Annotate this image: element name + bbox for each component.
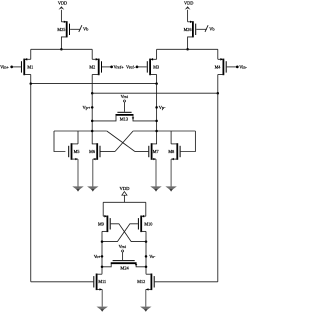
svg-text:M25: M25 xyxy=(57,27,65,32)
wire right feedback vertical xyxy=(217,93,219,282)
svg-text:Vrst: Vrst xyxy=(119,244,127,249)
node Vp- xyxy=(155,106,158,109)
wire VDD2 rail xyxy=(103,201,146,203)
node M2 drain junction xyxy=(91,92,94,95)
wire M3 source down xyxy=(156,75,158,84)
node M10 drain cross junction xyxy=(145,240,148,243)
svg-text:M6: M6 xyxy=(89,149,95,154)
svg-text:M26: M26 xyxy=(184,27,192,32)
svg-text:M13: M13 xyxy=(120,117,129,122)
wire M9 source up xyxy=(102,202,104,216)
transistor M8 xyxy=(176,143,178,160)
node M9 drain cross junction xyxy=(101,240,104,243)
svg-text:M4: M4 xyxy=(215,64,222,69)
wire M2 drain up xyxy=(91,49,93,59)
wire M12 drain up xyxy=(145,273,147,275)
node M13 left xyxy=(91,120,94,123)
wire M7 source down xyxy=(155,159,157,187)
wire M1-M3 drain join xyxy=(31,83,157,85)
wire M2-M4 drain join xyxy=(92,92,218,94)
node latch rail right junction xyxy=(155,130,158,133)
wire rail right pair xyxy=(157,48,218,50)
wire M12 gate xyxy=(155,281,218,283)
node latch rail left junction xyxy=(91,130,94,133)
node Vo- xyxy=(145,255,148,258)
transistor M2 xyxy=(98,59,100,76)
wire M4 source down xyxy=(217,75,219,94)
svg-text:Vin-: Vin- xyxy=(239,64,247,69)
ground M11 xyxy=(97,307,108,311)
transistor M5 xyxy=(71,143,73,160)
svg-text:M9: M9 xyxy=(98,221,104,226)
wire VDD right stem xyxy=(187,10,189,22)
node M25 drain junction xyxy=(60,48,63,51)
wire M6 source down xyxy=(92,159,94,187)
node M4 drain junction xyxy=(217,92,220,95)
svg-text:M8: M8 xyxy=(168,149,174,154)
wire M6 gate cross xyxy=(101,151,116,153)
wire M26 gate to Vb xyxy=(196,28,207,30)
node M24 left xyxy=(101,266,104,269)
port Vref+ xyxy=(102,66,112,68)
wire M10 gate cross xyxy=(102,224,138,242)
wire latch rail right xyxy=(133,130,195,132)
wire M10 source up xyxy=(145,202,147,216)
wire M1 source down xyxy=(30,75,32,84)
wire M9 gate cross xyxy=(111,224,146,242)
ground M5 xyxy=(72,186,83,190)
wire VDD left stem xyxy=(60,10,62,22)
svg-text:Vref+: Vref+ xyxy=(114,64,125,69)
svg-text:Vo+: Vo+ xyxy=(94,254,102,259)
svg-text:M10: M10 xyxy=(144,221,152,226)
transistor M25 xyxy=(66,21,68,37)
wire M1 drain up xyxy=(30,49,32,59)
transistor M12 xyxy=(150,274,152,291)
net Vb right slash xyxy=(205,25,208,32)
transistor M9 xyxy=(106,216,108,233)
svg-text:M7: M7 xyxy=(153,149,159,154)
svg-text:M2: M2 xyxy=(89,64,95,69)
svg-text:VDD: VDD xyxy=(58,1,67,6)
wire M2 source down xyxy=(91,75,93,94)
svg-text:Vb: Vb xyxy=(209,27,215,32)
ground M7 xyxy=(150,186,161,190)
transistor M7 xyxy=(151,143,153,160)
port Vin- xyxy=(227,66,238,68)
svg-text:Vrst: Vrst xyxy=(121,94,129,99)
net Vb left slash xyxy=(79,25,82,32)
svg-text:Vp+: Vp+ xyxy=(82,105,90,110)
wire M12 source down xyxy=(145,289,147,306)
svg-text:Vo-: Vo- xyxy=(149,254,156,259)
transistor M26 xyxy=(192,21,194,37)
ground M12 xyxy=(140,307,151,311)
wire Vp+ vertical xyxy=(91,93,93,144)
svg-text:M12: M12 xyxy=(137,279,145,284)
wire M11 gate xyxy=(31,281,94,283)
svg-text:Vref-: Vref- xyxy=(126,64,136,69)
svg-text:M3: M3 xyxy=(153,64,159,69)
ground M8 xyxy=(165,186,176,190)
wire latch rail left xyxy=(54,130,107,132)
wire M5 gate loop xyxy=(54,131,65,152)
svg-text:M1: M1 xyxy=(27,64,33,69)
transistor M3 xyxy=(149,59,151,76)
wire latch cross couple diagonals xyxy=(107,131,135,152)
wire M10 drain down xyxy=(145,231,147,274)
transistor M10 xyxy=(140,216,142,233)
transistor M1 xyxy=(23,59,25,76)
wire M8 drain up xyxy=(170,131,172,144)
svg-text:M24: M24 xyxy=(120,265,129,270)
node M1 drain junction xyxy=(30,82,33,85)
svg-text:M5: M5 xyxy=(74,149,80,154)
wire M4 drain up xyxy=(217,49,219,59)
node M24 right xyxy=(145,266,148,269)
wire M5 drain up xyxy=(77,131,79,144)
wire M5 source down xyxy=(77,159,79,187)
svg-text:Vb: Vb xyxy=(83,27,89,32)
wire left feedback vertical xyxy=(30,84,32,282)
node M13 right xyxy=(155,120,158,123)
svg-text:VDD: VDD xyxy=(120,186,131,191)
wire M11 drain up xyxy=(101,273,103,275)
wire M25 gate to Vb xyxy=(70,28,81,30)
wire M8 gate loop xyxy=(181,131,196,152)
transistor M24 xyxy=(122,252,124,260)
wire M7 gate cross xyxy=(135,151,148,153)
node M26 drain junction xyxy=(186,48,189,51)
transistor M11 xyxy=(96,274,98,291)
wire rail left pair xyxy=(31,48,92,50)
svg-text:Vin+: Vin+ xyxy=(0,64,9,69)
svg-text:VDD: VDD xyxy=(184,1,193,6)
wire M8 source down xyxy=(170,159,172,187)
node M3 drain junction xyxy=(155,82,158,85)
ground M6 xyxy=(87,186,98,190)
transistor M4 xyxy=(222,59,224,76)
wire M3 drain up xyxy=(156,49,158,59)
transistor M13 xyxy=(124,102,126,111)
transistor M6 xyxy=(96,143,98,160)
wire M9 drain down xyxy=(101,231,103,274)
wire Vp- vertical xyxy=(156,84,158,145)
svg-text:M11: M11 xyxy=(98,279,106,284)
svg-text:Vp-: Vp- xyxy=(159,105,166,110)
wire M11 source down xyxy=(101,289,103,306)
